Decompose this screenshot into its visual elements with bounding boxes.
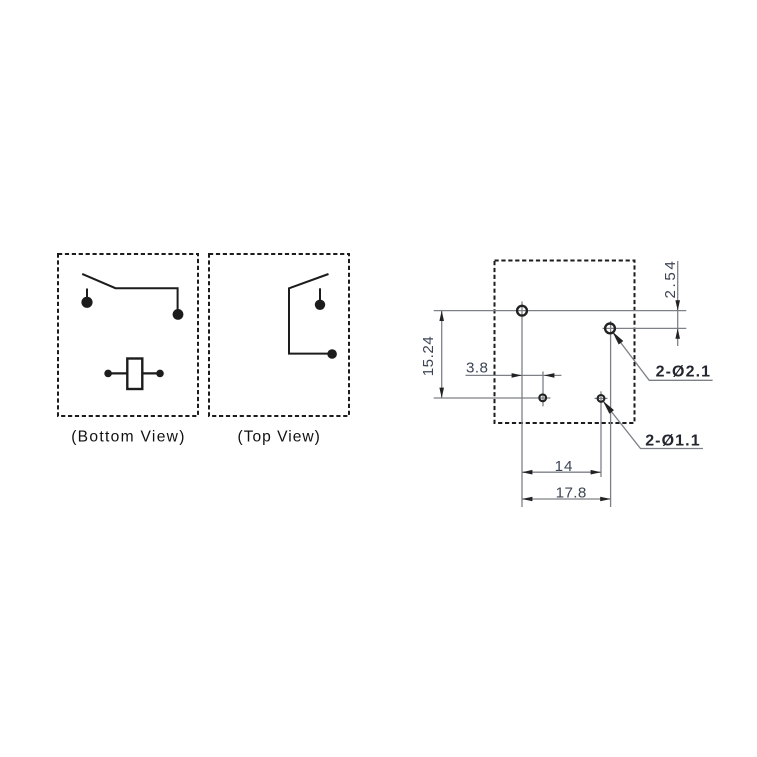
svg-text:14: 14 xyxy=(555,458,574,475)
PCB layout dashed outline xyxy=(495,261,635,424)
arrowhead 17.8 right xyxy=(600,497,610,502)
switch common terminal dot (top view) xyxy=(327,349,337,359)
svg-text:2-Ø1.1: 2-Ø1.1 xyxy=(645,433,701,450)
arrowhead 2.54 lower (points up) xyxy=(675,328,680,338)
bottom view dashed box xyxy=(58,254,198,416)
extension line below hole H4 xyxy=(600,391,602,477)
hole H1 (2.1mm) xyxy=(517,306,527,316)
hole H3 (1.1mm) xyxy=(539,394,546,401)
coil left terminal dot xyxy=(104,370,112,378)
centerline through hole H1 xyxy=(434,310,687,312)
extension tick through hole H3 xyxy=(542,372,544,407)
leader arrowhead at hole H4 xyxy=(603,401,614,414)
arrowhead 15.24 bottom xyxy=(439,388,444,398)
coil left lead wire xyxy=(108,372,127,374)
leader line for 2-Ø1.1 xyxy=(603,401,703,449)
extension line below hole H1 xyxy=(521,302,523,508)
extension line below hole H2 xyxy=(610,321,612,507)
dimension line 2.54 xyxy=(677,261,679,346)
hole H4 (1.1mm) xyxy=(598,395,605,402)
leader line for 2-Ø2.1 xyxy=(613,332,713,381)
switch NO contact stub (top view) xyxy=(319,288,321,300)
switch armature (top view) xyxy=(289,274,330,354)
centerline through hole H3 xyxy=(434,397,551,399)
arrowhead 14 right xyxy=(591,470,601,475)
leader arrowhead at hole H2 xyxy=(612,331,623,344)
switch NO contact stub (bottom view) xyxy=(86,289,88,300)
svg-text:15.24: 15.24 xyxy=(420,336,437,377)
dimension line 14 xyxy=(522,471,601,473)
arrowhead 14 left xyxy=(522,470,532,475)
dimension line 3.8 xyxy=(466,374,562,376)
switch NO contact dot (bottom view) xyxy=(81,297,92,308)
switch NO contact dot (top view) xyxy=(315,300,325,310)
svg-text:2.54: 2.54 xyxy=(662,259,679,299)
hole H2 (2.1mm) xyxy=(605,324,615,334)
arrowhead 3.8 right (points left) xyxy=(544,373,554,378)
svg-text:(Bottom View): (Bottom View) xyxy=(71,429,186,446)
arrowhead 2.54 upper (points down) xyxy=(675,300,680,310)
top view dashed box xyxy=(209,254,349,416)
horizontal tick through hole H4 xyxy=(595,397,608,399)
svg-text:17.8: 17.8 xyxy=(556,485,587,502)
coil K1 body (bottom view) xyxy=(127,359,142,390)
svg-text:2-Ø2.1: 2-Ø2.1 xyxy=(656,364,712,381)
coil right lead wire xyxy=(142,372,160,374)
svg-text:(Top View): (Top View) xyxy=(238,429,321,446)
switch common terminal dot (bottom view) xyxy=(173,309,184,320)
switch armature (bottom view) xyxy=(82,274,177,312)
centerline through hole H2 xyxy=(603,327,687,329)
arrowhead 15.24 top xyxy=(439,311,444,321)
dimension line 15.24 xyxy=(441,311,443,398)
arrowhead 17.8 left xyxy=(522,497,532,502)
coil right terminal dot xyxy=(156,370,164,378)
arrowhead 3.8 left (points right) xyxy=(512,373,522,378)
svg-text:3.8: 3.8 xyxy=(466,359,488,376)
dimension line 17.8 xyxy=(522,498,611,500)
